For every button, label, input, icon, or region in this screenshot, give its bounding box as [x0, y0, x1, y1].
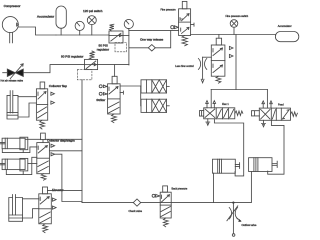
valve striker [108, 84, 124, 114]
wires cylinder to elevator valve [23, 199, 39, 218]
accumulator tank right [275, 32, 298, 42]
spring elevator [43, 224, 48, 233]
wire main supply line [56, 34, 109, 36]
pressure switch 120psi [87, 16, 96, 35]
outflow valve [227, 203, 242, 237]
valve elevator [39, 194, 52, 224]
valve F (lower right) [259, 108, 290, 120]
svg-text:80 PSI regulator: 80 PSI regulator [61, 55, 83, 59]
wire drop to valve F [266, 90, 268, 109]
svg-text:Feed: Feed [278, 103, 284, 106]
svg-text:Striker: Striker [96, 98, 105, 102]
valve V1 fine pressure (3/2, vertical) [179, 9, 194, 36]
wire valve F out to cylinder C rod end [268, 120, 284, 174]
svg-text:regulator: regulator [97, 48, 109, 52]
wire striker pilot stem [114, 65, 116, 77]
wire left pilot bus [81, 80, 83, 203]
spring diaphragm [41, 174, 46, 181]
svg-text:Compressor: Compressor [4, 4, 21, 8]
exhaust triangles diaphragm right [51, 144, 55, 156]
spring valve F right [291, 112, 298, 117]
svg-text:Accumulator: Accumulator [278, 25, 292, 28]
cylinder V-flap (vertical) [7, 91, 18, 119]
wire branch to diaphragm pilot [45, 138, 82, 140]
compressor C1 [2, 17, 18, 43]
svg-text:Accumulator: Accumulator [37, 15, 54, 19]
wire supply drop x236 [235, 35, 237, 90]
regulator R2 [77, 51, 97, 80]
muffler block 1 [141, 80, 169, 93]
wire cylinder C bottom to main [213, 173, 215, 202]
wires cylinder to collector flap valve [18, 97, 36, 117]
junction node bottom [232, 202, 234, 204]
svg-text:Fine pressure switch: Fine pressure switch [226, 15, 249, 18]
exhaust port V1 left [171, 26, 179, 29]
right port triangles G [229, 46, 233, 57]
spring striker [112, 114, 117, 123]
regulator R1 [109, 24, 127, 52]
exhaust triangles elevator right [53, 198, 57, 209]
wire G left to restrictor [203, 56, 212, 58]
svg-text:Hot air release valve: Hot air release valve [1, 80, 24, 83]
exhaust port back pressure left [152, 194, 160, 197]
spring collector flap [40, 120, 45, 129]
exhaust arrows above valve E [206, 101, 216, 108]
pilot box diaphragm [41, 133, 46, 140]
pilot box elevator [43, 187, 48, 194]
svg-text:Check valve: Check valve [129, 210, 143, 213]
wire hot air branch [3, 65, 85, 73]
pilot box back pressure [163, 186, 168, 192]
wire diaphragm lower branch [55, 154, 82, 201]
pressure gauge G3 [124, 19, 133, 30]
svg-text:One way release: One way release [140, 37, 163, 41]
cylinder A horizontal [0, 137, 28, 150]
wire feed to fine pressure valve [129, 29, 179, 31]
pressure gauge G1 [75, 21, 84, 35]
valve collector flap [36, 89, 47, 120]
svg-text:Flex 1: Flex 1 [222, 103, 229, 106]
valve E (lower left of right group) [204, 108, 235, 119]
accumulator tank [56, 6, 66, 35]
valve back pressure [160, 192, 171, 218]
wire one way release branch [129, 30, 171, 47]
pilot box G [216, 38, 221, 45]
spring G [216, 76, 221, 83]
svg-text:80 PSI: 80 PSI [99, 43, 108, 47]
valve G less flow control [211, 45, 225, 76]
svg-text:Collector diaphragm: Collector diaphragm [47, 138, 75, 142]
node vertical x129 [128, 30, 130, 65]
check valve one way release [148, 45, 155, 51]
wire right main line [191, 34, 276, 36]
svg-text:Outflow valve: Outflow valve [242, 224, 257, 227]
hot air release valve (bowtie) [7, 64, 23, 79]
cylinder E vertical (elevator) [9, 195, 23, 222]
wire compressor to main line [18, 27, 56, 35]
exhaust triangles collector flap right [51, 92, 55, 104]
wire pilot stem G [218, 35, 220, 39]
wire regulator2 out [98, 64, 129, 66]
wires cylinders A B to diaphragm valve [26, 138, 41, 140]
svg-text:Collector flap: Collector flap [49, 84, 67, 88]
wire valve E out to cylinder C rod end [214, 119, 243, 176]
wire drop to valve E [210, 90, 212, 108]
spring back pressure [163, 218, 168, 227]
wire distribution line y89.5 [211, 89, 267, 91]
flow restrictor [198, 57, 206, 83]
wire muffler bus [140, 86, 142, 106]
exhaust arrows above valve F [262, 101, 272, 108]
pilot box striker [112, 76, 117, 84]
exhaust T below valve E [206, 119, 210, 126]
wire branch to elevator pilot [48, 189, 83, 191]
svg-text:Back pressure: Back pressure [172, 187, 188, 190]
pilot box collector flap [40, 82, 45, 89]
pilot box of V1 [182, 1, 187, 8]
muffler block 2 [141, 99, 169, 112]
svg-text:120 psi switch: 120 psi switch [83, 9, 103, 13]
wire bottom main line [82, 172, 251, 203]
spring V1 bottom [182, 36, 187, 46]
exhaust T below valve F [262, 120, 266, 127]
svg-text:Less flow control: Less flow control [175, 65, 194, 68]
cylinder B horizontal [0, 158, 28, 171]
pilot valve E left [200, 111, 204, 117]
check valve bottom [133, 199, 140, 206]
wire striker to muffler bus [120, 85, 141, 87]
wire regulator1 out [123, 35, 129, 37]
svg-text:Fine pressure: Fine pressure [161, 8, 177, 11]
cylinder D [249, 158, 278, 172]
wire diaphragm output to bottom line [49, 150, 82, 152]
pilot valve F left [252, 111, 260, 116]
cylinder C [213, 159, 240, 173]
fine pressure switch (top right) [230, 20, 238, 35]
exhaust ports striker left [99, 85, 107, 96]
svg-text:Elevator: Elevator [52, 188, 63, 192]
spring valve E right [235, 111, 243, 116]
valve collector diaphragm [37, 143, 50, 174]
